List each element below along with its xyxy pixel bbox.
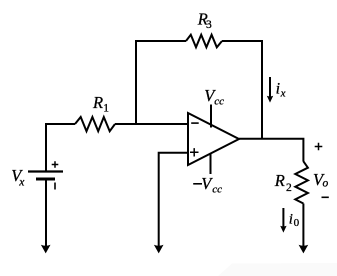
current arrow i0 [282,208,284,229]
resistor R3 [186,35,222,48]
wire feedback-loop top-right segment and right vertical to output node [222,41,262,139]
label -Vcc minus [193,183,202,185]
wire Vx positive lead to R1 [46,124,75,171]
resistor R2 [295,161,308,203]
battery minus tick [54,183,56,190]
Vo plus sign [315,143,323,151]
op-amp inverting input minus sign [191,122,199,124]
wire op-amp non-inverting input to ground [159,153,188,248]
svg-text:i: i [276,80,280,97]
op-amp negative supply pin [210,154,212,175]
svg-text:R: R [92,93,103,112]
op-amp non-inverting input plus sign [190,148,199,156]
op-amp positive supply pin [210,105,212,128]
ground middle arrow [154,245,164,254]
battery plus sign [52,161,59,168]
voltage source Vx battery short plate [36,178,55,181]
Vo minus sign [322,196,329,198]
svg-text:3: 3 [206,19,212,31]
current arrow ix [269,77,271,99]
wire op-amp output to R2 top [239,139,303,162]
svg-text:1: 1 [103,102,109,114]
watermark band bottom right [218,263,337,276]
svg-text:x: x [280,87,286,99]
resistor R1 [75,117,115,131]
voltage source Vx battery long plate [28,170,63,172]
ground left arrow [41,245,51,254]
svg-text:i: i [289,211,293,227]
ground right arrow [299,245,309,254]
wire R1 to op-amp inverting input [115,123,188,125]
svg-text:o: o [323,178,329,190]
svg-text:R: R [274,171,285,190]
svg-text:2: 2 [286,182,292,194]
wire R2 bottom to ground [302,204,304,249]
svg-text:0: 0 [294,217,300,229]
wire feedback-loop left vertical and top-left segment [136,41,186,125]
wire Vx negative lead to ground [45,180,47,248]
op-amp U1 [188,113,239,165]
svg-text:cc: cc [212,184,222,196]
svg-text:cc: cc [214,95,224,107]
svg-text:x: x [18,176,25,188]
